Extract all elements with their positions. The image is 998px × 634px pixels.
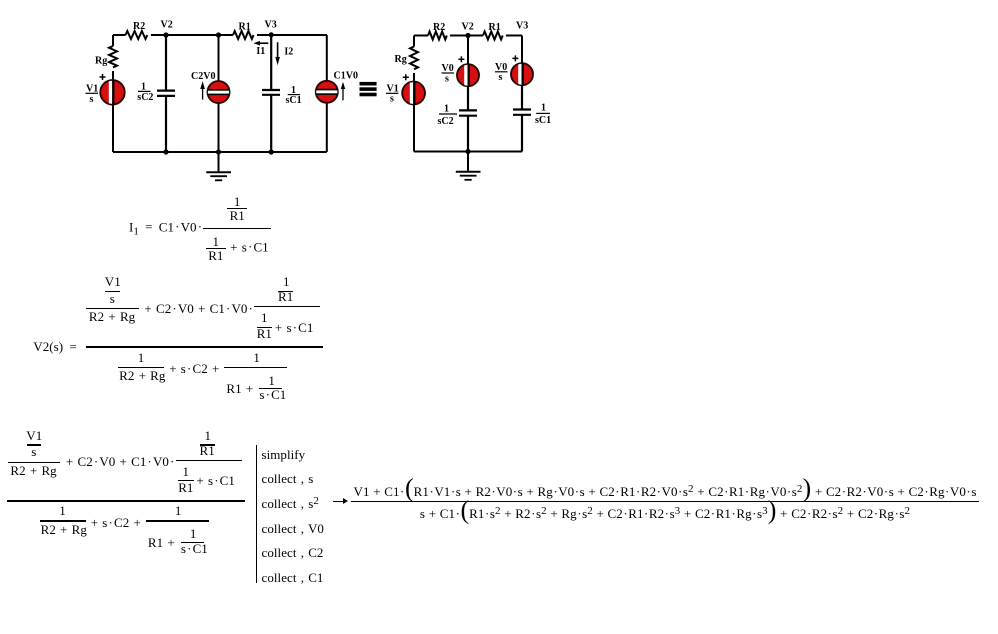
voltage source V0/s (right column) <box>495 55 533 87</box>
capacitor 1/sC1 (right circuit) <box>513 85 531 152</box>
label 1/sC1 (right circuit) <box>535 102 551 126</box>
wire: top rail left segment <box>113 34 126 36</box>
wire: bottom rail (right circuit) <box>414 151 522 153</box>
svg-text:V2: V2 <box>462 21 474 32</box>
resistor R1 (right circuit) <box>483 22 503 40</box>
svg-text:V3: V3 <box>516 20 528 31</box>
keyword column: simplify / collect <box>256 445 257 583</box>
svg-text:V2: V2 <box>161 20 173 31</box>
capacitor 1/sC2 (left circuit) <box>157 35 175 152</box>
wire: top rail mid segment <box>151 34 233 36</box>
current source C1V0 <box>315 35 358 152</box>
node: bottom junction C2V0 column <box>216 149 221 154</box>
voltage source V1/s (right circuit) <box>386 74 425 106</box>
label 1/sC2 (left circuit) <box>137 81 153 103</box>
wire: bottom rail <box>113 151 327 153</box>
equivalence symbol <box>360 82 377 96</box>
equation: left expression (symbolic evaluation) <box>7 500 245 502</box>
svg-text:R1: R1 <box>489 22 501 33</box>
svg-text:I2: I2 <box>284 46 293 57</box>
wire: left rail upper (right circuit) <box>413 36 415 47</box>
capacitor 1/sC1 (left circuit) <box>262 35 280 152</box>
svg-text:sC1: sC1 <box>535 115 551 126</box>
wire: V3 column upper (right circuit) <box>521 36 523 64</box>
svg-text:sC1: sC1 <box>286 95 302 106</box>
wire: top rail left segment (right circuit) <box>414 35 428 37</box>
wire: left rail lower (right circuit) <box>413 73 415 152</box>
svg-text:Rg: Rg <box>95 56 107 67</box>
svg-text:1: 1 <box>541 102 546 113</box>
node: bottom junction (right circuit) <box>465 149 470 154</box>
svg-text:R2: R2 <box>133 21 145 32</box>
svg-text:V3: V3 <box>265 20 277 31</box>
svg-text:s: s <box>499 72 503 83</box>
current source C2V0 <box>191 35 230 152</box>
current arrow I1 <box>254 41 269 57</box>
ground (right circuit) <box>456 152 481 180</box>
svg-text:sC2: sC2 <box>438 116 454 127</box>
svg-text:C1V0: C1V0 <box>334 71 358 82</box>
svg-text:R1: R1 <box>239 21 251 32</box>
wire: left rail upper <box>112 35 114 46</box>
svg-text:1: 1 <box>141 81 146 92</box>
node V2 (right circuit) <box>462 21 474 38</box>
node: bottom junction V2 column <box>163 149 168 154</box>
svg-text:sC2: sC2 <box>137 92 153 103</box>
wire: top rail right segment (right circuit) <box>506 35 522 37</box>
equation I1 definition <box>129 189 271 268</box>
node: top junction C2V0 column <box>216 32 221 37</box>
ground (left circuit) <box>206 152 231 180</box>
current arrow I2 <box>275 42 293 65</box>
svg-text:Rg: Rg <box>395 54 407 65</box>
voltage source V1/s (left circuit) <box>86 74 125 106</box>
svg-text:V1: V1 <box>86 83 98 94</box>
svg-text:s: s <box>90 94 94 105</box>
arrow <box>333 501 344 502</box>
node V3 <box>265 20 277 38</box>
resistor R1 <box>233 21 254 39</box>
resistor R2 <box>126 21 148 39</box>
label 1/sC2 (right circuit) <box>438 103 458 127</box>
label 1/sC1 (left circuit) <box>286 85 302 106</box>
svg-text:s: s <box>445 73 449 84</box>
resistor Rg (right circuit) <box>395 47 419 70</box>
wire: left rail lower <box>112 71 114 152</box>
wire: top rail right segment <box>257 34 327 36</box>
resistor R2 (right circuit) <box>428 22 447 40</box>
svg-text:I1: I1 <box>256 46 265 57</box>
wire: top rail mid segment (right circuit) <box>450 35 483 37</box>
result expression <box>351 482 979 522</box>
node V2 <box>161 20 173 38</box>
equation V2(s) definition <box>33 340 78 353</box>
svg-text:s: s <box>390 94 394 105</box>
wire: V2 column upper (right circuit) <box>467 36 469 65</box>
capacitor 1/sC2 (right circuit) <box>459 86 477 152</box>
node: bottom junction V3 column <box>269 149 274 154</box>
resistor Rg <box>95 46 117 67</box>
voltage source V0/s (middle column) <box>442 56 480 88</box>
svg-text:1: 1 <box>444 103 449 114</box>
svg-text:C2V0: C2V0 <box>191 71 215 82</box>
svg-text:R2: R2 <box>433 22 445 33</box>
